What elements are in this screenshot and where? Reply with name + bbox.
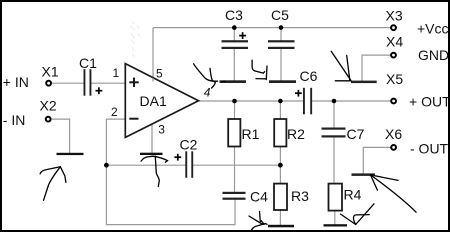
resistor R1 xyxy=(228,119,259,147)
terminal X4 xyxy=(386,34,403,58)
svg-text:R4: R4 xyxy=(344,187,362,203)
ground under op-amp pin 3 xyxy=(140,153,163,155)
wire C7 top lead xyxy=(333,101,335,128)
capacitor C2 xyxy=(174,137,197,178)
terminal X5 xyxy=(386,71,403,103)
hand-drawn arrow annotation near C4 xyxy=(249,211,267,230)
ground under R4 xyxy=(324,224,348,226)
wire node to C2 xyxy=(106,164,186,166)
wire feedback loop bottom xyxy=(106,165,235,224)
hand-drawn annotation near pin 4 xyxy=(194,64,226,88)
capacitor C1 xyxy=(79,55,102,96)
svg-text:X4: X4 xyxy=(386,34,403,50)
junction node at op-amp pin 2 xyxy=(104,163,109,168)
wire C3 bottom lead to ground xyxy=(233,49,235,82)
svg-text:C3: C3 xyxy=(225,7,243,23)
svg-text:C1: C1 xyxy=(79,55,97,71)
resistor R3 xyxy=(274,184,309,210)
wire X4 to ground xyxy=(362,55,391,81)
wire R4 bottom to ground xyxy=(334,211,336,225)
wire output rail op-amp to C6 xyxy=(199,100,304,102)
svg-text:1: 1 xyxy=(113,66,120,80)
wire C5 top lead xyxy=(280,28,282,41)
svg-text:X1: X1 xyxy=(42,63,59,79)
wire R1 top lead xyxy=(234,101,236,119)
capacitor C3 xyxy=(222,7,249,49)
wire C2 to R2 bottom node xyxy=(193,164,281,166)
wire R1 bottom through to C4 xyxy=(234,147,236,193)
op-amp U DA1 xyxy=(125,64,198,138)
svg-text:2: 2 xyxy=(111,105,118,119)
ground under X2 xyxy=(57,153,84,155)
ground under C3 xyxy=(220,80,247,83)
resistor R2 xyxy=(274,119,305,147)
capacitor C5 xyxy=(268,7,295,49)
svg-text:C7: C7 xyxy=(347,126,365,142)
svg-text:C5: C5 xyxy=(271,7,289,23)
hand-drawn annotation near C5 ground xyxy=(252,60,267,79)
junction node R1 top xyxy=(232,99,237,104)
scan smudge (faint) xyxy=(130,21,140,57)
terminal X1 xyxy=(42,63,59,85)
wire C5 bottom lead to ground xyxy=(280,49,282,82)
ground under R3 xyxy=(268,225,294,228)
svg-text:R2: R2 xyxy=(287,126,305,142)
svg-text:GND: GND xyxy=(418,47,449,63)
hand-drawn check annotation near R4 xyxy=(341,204,374,225)
junction node R2 bottom xyxy=(278,163,283,168)
svg-text:3: 3 xyxy=(158,123,165,137)
svg-text:R1: R1 xyxy=(242,126,260,142)
svg-text:5: 5 xyxy=(156,67,163,81)
svg-text:X3: X3 xyxy=(386,8,403,24)
svg-text:C4: C4 xyxy=(250,188,268,204)
wire R2 top lead xyxy=(279,101,281,119)
capacitor C7 xyxy=(322,126,365,142)
ground under C5 xyxy=(269,80,296,83)
svg-text:DA1: DA1 xyxy=(140,93,167,109)
svg-text:X2: X2 xyxy=(40,98,57,114)
wire X1 to C1 xyxy=(52,82,84,84)
junction node C3 top xyxy=(232,25,237,30)
wire R2 bottom to R3 top xyxy=(279,147,281,184)
hand-drawn annotation under X2 ground xyxy=(40,167,66,201)
terminal X3 xyxy=(386,8,403,31)
wire op-amp pin 5 to Vcc rail xyxy=(152,28,154,81)
wire op-amp pin 3 to ground xyxy=(151,123,153,153)
wire X6 to ground xyxy=(363,147,390,173)
svg-text:X5: X5 xyxy=(386,71,403,87)
junction node C5 top xyxy=(279,25,284,30)
wire Vcc rail to X3 xyxy=(153,27,391,29)
svg-text:+ OUT: + OUT xyxy=(409,93,450,109)
capacitor C6 xyxy=(295,68,318,114)
wire R3 bottom to ground xyxy=(279,210,281,226)
ground under X6 xyxy=(352,173,376,176)
wire C3 top lead xyxy=(233,28,235,41)
svg-text:+ IN: + IN xyxy=(3,74,29,90)
wire C1 to op-amp pin 1 xyxy=(91,82,126,84)
svg-text:+Vcc: +Vcc xyxy=(417,20,449,36)
wire op-amp pin 2 stub xyxy=(106,119,126,165)
svg-text:- OUT: - OUT xyxy=(410,141,449,157)
junction node C7 top xyxy=(332,99,337,104)
svg-text:- IN: - IN xyxy=(3,112,26,128)
capacitor C4 xyxy=(223,188,269,204)
wire X2 to ground xyxy=(52,119,70,153)
junction node R2 top xyxy=(278,99,283,104)
ground under X4 xyxy=(351,81,377,84)
svg-text:R3: R3 xyxy=(291,188,309,204)
svg-text:C6: C6 xyxy=(300,68,318,84)
terminal X2 xyxy=(40,98,57,122)
svg-text:C2: C2 xyxy=(180,137,198,153)
svg-text:X6: X6 xyxy=(385,126,402,142)
hand-drawn annotation near X4 ground xyxy=(331,51,351,81)
resistor R4 xyxy=(329,184,362,211)
wire C7 to R4 xyxy=(333,138,335,184)
hand-drawn annotation under pin 3 ground xyxy=(141,156,167,186)
wire C6 to X5 xyxy=(311,100,391,102)
wire pin 5 stub inside op-amp xyxy=(152,78,154,82)
svg-text:4: 4 xyxy=(204,86,211,100)
terminal X6 xyxy=(385,126,402,150)
hand-drawn arrow annotation pointing to X6 ground xyxy=(371,175,417,212)
